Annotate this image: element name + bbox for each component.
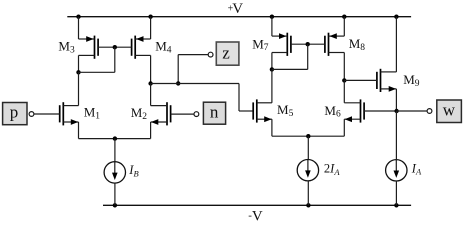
wire: M7 diode connection (gates to M7 drain) <box>272 44 308 69</box>
svg-text:z: z <box>222 43 230 62</box>
svg-text:M3: M3 <box>58 39 75 56</box>
node: M3/M4 gate junction <box>113 45 117 49</box>
transistor M8 (PMOS) <box>325 33 329 56</box>
wire: M1 source down to tail node <box>79 122 115 139</box>
transistor M5 (NMOS) <box>253 99 257 122</box>
node: M7 drain junction <box>270 67 274 71</box>
svg-text:2IA: 2IA <box>324 162 340 177</box>
wire: IA to -V rail <box>395 181 397 205</box>
terminal p box <box>3 103 27 125</box>
+V top supply rail <box>67 16 411 18</box>
node: top rail junction (M9 drain) <box>394 15 398 19</box>
transistor M2 (NMOS) <box>167 102 171 125</box>
node: M5/M6 common source (tail) <box>306 134 310 138</box>
M4 source lead with arrow <box>135 36 150 42</box>
svg-text:M1: M1 <box>84 105 101 122</box>
M3 gate lead <box>98 46 115 48</box>
M1 drain lead <box>63 105 78 107</box>
M4 gate lead <box>115 46 132 48</box>
wire: M4 drain down to z node <box>150 55 152 83</box>
svg-text:w: w <box>443 101 456 120</box>
wire: M7 source to +V rail <box>271 17 273 36</box>
M2 source lead with arrow <box>151 119 167 125</box>
wire: M5 source down to tail node <box>272 119 308 136</box>
node: bottom rail junction (2IA) <box>306 203 310 207</box>
wire: M9 source down to w node <box>395 89 397 111</box>
M8 drain lead <box>329 52 345 54</box>
M9 source lead with arrow <box>381 86 397 92</box>
transistor M9 (NMOS) <box>377 69 381 92</box>
current source IB <box>104 162 125 183</box>
wire: 2IA to -V rail <box>307 181 309 205</box>
svg-text:M7: M7 <box>252 36 269 53</box>
wire: M4 source to +V rail <box>150 17 152 39</box>
node: bottom rail junction (IB) <box>113 203 117 207</box>
transistor M1 (NMOS) <box>60 102 64 125</box>
wire: w node to IA <box>395 111 397 160</box>
svg-text:M4: M4 <box>155 39 172 56</box>
svg-text:n: n <box>210 103 219 122</box>
M9 drain lead <box>381 71 397 73</box>
wire: M1 drain up to M3 drain <box>78 72 80 105</box>
wire: M8 drain down to M9 gate node <box>343 53 345 81</box>
wire: M9 drain up to +V rail <box>395 17 397 72</box>
svg-text:IB: IB <box>128 163 138 179</box>
wire: M3 drain down <box>78 55 80 72</box>
M3 drain lead <box>79 54 95 56</box>
M4 drain lead <box>135 54 150 56</box>
wire: IB to -V rail <box>114 183 116 205</box>
label +V <box>228 1 244 17</box>
node: top rail junction (M7 source) <box>270 15 274 19</box>
node: top rail junction (M8 source) <box>342 15 346 19</box>
M6 source lead with arrow <box>344 116 360 122</box>
wire: M2 source down to tail node <box>115 122 151 139</box>
wire: first stage output (z node) to M5 gate <box>151 84 254 112</box>
wire: p terminal to M1 gate <box>34 113 60 115</box>
label -V <box>248 208 263 224</box>
M5 drain lead <box>257 102 272 104</box>
M7 source lead with arrow <box>272 33 287 39</box>
M5 source lead with arrow <box>257 116 272 122</box>
node: M7/M8 gate junction <box>306 42 310 46</box>
node: M4/M2 drain junction <box>148 81 152 85</box>
wire: tail node to IB <box>114 139 116 162</box>
wire: w node to w terminal <box>397 110 428 112</box>
transistor M7 (PMOS) <box>287 33 291 56</box>
wire: n terminal to M2 gate <box>171 113 194 115</box>
svg-text:V: V <box>252 208 263 224</box>
M3 source lead with arrow <box>79 36 95 42</box>
node: top rail junction (M4 source) <box>148 15 152 19</box>
node: M3 drain junction <box>76 70 80 74</box>
svg-text:M6: M6 <box>324 103 341 120</box>
wire: M8 source to +V rail <box>343 17 345 36</box>
svg-text:M9: M9 <box>403 72 420 89</box>
wire: z tap (node to terminal) <box>178 55 208 84</box>
wire: M5/M6 tail to 2IA <box>307 136 309 159</box>
wire: M3 diode connection (gates to M3 drain) <box>79 47 115 72</box>
svg-text:M5: M5 <box>277 102 294 119</box>
wire: M3 source to +V rail <box>78 17 80 39</box>
svg-text:IA: IA <box>411 161 422 176</box>
terminal z open circle <box>208 52 213 57</box>
svg-text:M2: M2 <box>131 105 148 122</box>
-V bottom supply rail <box>103 204 411 206</box>
M8 source lead with arrow <box>329 33 345 39</box>
node: bottom rail junction (IA) <box>394 203 398 207</box>
transistor M3 (PMOS) <box>95 36 99 59</box>
wire: M6 gate to w node <box>364 110 397 112</box>
terminal z box <box>216 42 239 65</box>
terminal n open circle <box>194 112 199 117</box>
M8 gate lead <box>308 43 325 45</box>
wire: M2 drain up to z node <box>150 84 152 106</box>
M6 drain lead <box>344 102 360 104</box>
svg-text:M8: M8 <box>349 36 366 53</box>
node: M1/M2 common source (tail) <box>113 136 117 140</box>
transistor M4 (PMOS) <box>132 36 136 59</box>
terminal w box <box>437 100 462 123</box>
terminal n box <box>203 102 225 124</box>
wire: M6 drain up to M8 drain <box>343 80 345 102</box>
terminal p open circle <box>29 112 34 117</box>
transistor M6 (NMOS) <box>361 99 365 122</box>
M7 gate lead <box>291 43 308 45</box>
terminal w open circle <box>427 109 432 114</box>
current source 2IA <box>297 160 318 181</box>
node: top rail junction (M3 source) <box>76 15 80 19</box>
node: z junction on output wire <box>176 81 180 85</box>
M1 source lead with arrow <box>63 119 78 125</box>
node: w output junction <box>394 109 398 113</box>
M2 drain lead <box>151 105 167 107</box>
current source IA <box>386 160 407 181</box>
M7 drain lead <box>272 52 287 54</box>
svg-text:p: p <box>10 103 19 122</box>
wire: M7 drain down <box>271 53 273 70</box>
node: M8/M6 drain junction (M9 gate node) <box>342 78 346 82</box>
M9 gate wire from M8 drain node <box>344 79 377 81</box>
svg-text:V: V <box>232 1 243 17</box>
wire: M6 source down to tail node <box>308 119 344 136</box>
wire: M5 drain up to M7 drain <box>271 69 273 102</box>
